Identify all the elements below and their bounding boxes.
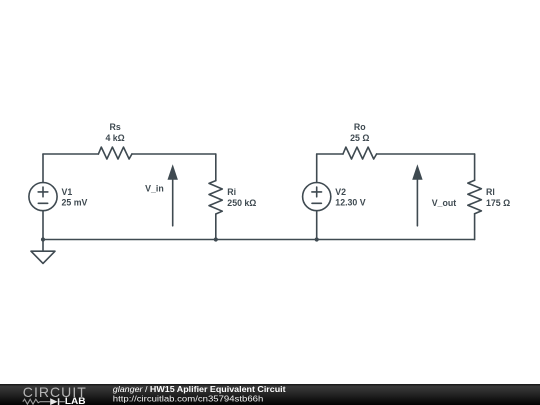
resistor Rl	[468, 180, 482, 213]
wire V1 bottom stem	[42, 211, 44, 240]
resistor Rs	[98, 147, 131, 159]
svg-text:Rs: Rs	[109, 122, 120, 132]
resistor Ri	[209, 181, 222, 214]
resistor Ro	[343, 147, 377, 159]
arrow V_out	[416, 180, 418, 226]
svg-text:250 kΩ: 250 kΩ	[227, 198, 256, 208]
wire V2 to Ro	[317, 153, 343, 155]
svg-text:175 Ω: 175 Ω	[486, 198, 510, 208]
voltage source V2	[303, 183, 331, 211]
logo resistor-diode glyph	[23, 399, 65, 404]
svg-text:Ro: Ro	[354, 122, 366, 132]
wire Ri bottom stem	[215, 214, 217, 240]
svg-text:12.30 V: 12.30 V	[335, 198, 365, 208]
ground	[31, 240, 55, 264]
wire V2 bottom stem	[316, 211, 318, 240]
svg-text:Ri: Ri	[227, 187, 236, 197]
voltage source V1	[29, 183, 57, 211]
node junction V2 bottom	[315, 237, 319, 241]
svg-text:V_in: V_in	[145, 184, 164, 194]
svg-text:LAB: LAB	[65, 396, 86, 405]
wire V2 top stem	[316, 154, 318, 183]
svg-text:25 mV: 25 mV	[62, 198, 88, 208]
svg-text:V2: V2	[335, 187, 346, 197]
wire Rl top stem	[474, 154, 476, 180]
wire Rl bottom stem	[474, 214, 476, 240]
wire Rs to Ri top	[132, 153, 216, 155]
svg-text:http://circuitlab.com/cn35794s: http://circuitlab.com/cn35794stb66h	[113, 394, 264, 403]
arrowhead V_out	[412, 164, 422, 180]
node junction Ri bottom	[214, 237, 218, 241]
svg-text:Rl: Rl	[486, 187, 495, 197]
svg-text:glanger / HW15 Aplifier Equiva: glanger / HW15 Aplifier Equivalent Circu…	[113, 385, 286, 394]
wire top-left V1 to Rs	[43, 153, 98, 155]
arrow V_in	[172, 180, 174, 226]
footer bar	[0, 384, 540, 405]
wire bottom rail	[43, 239, 475, 241]
wire Ri top stem	[215, 154, 217, 181]
svg-text:V_out: V_out	[432, 198, 457, 208]
wire Ro to Rl top	[377, 153, 475, 155]
node junction V1-ground	[41, 237, 45, 241]
svg-text:V1: V1	[62, 187, 73, 197]
svg-text:4 kΩ: 4 kΩ	[105, 133, 124, 143]
svg-text:25 Ω: 25 Ω	[350, 133, 369, 143]
arrowhead V_in	[168, 164, 178, 180]
wire V1 top stem	[42, 154, 44, 183]
